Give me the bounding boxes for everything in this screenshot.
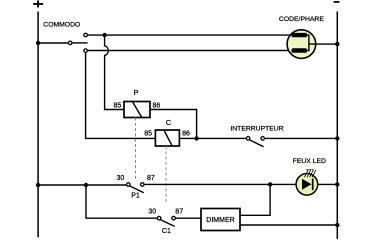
commodo upper contact (phare)	[84, 33, 88, 37]
led FEUX body	[296, 174, 318, 196]
svg-text:85: 85	[144, 131, 152, 138]
commodo lower contact (code)	[84, 49, 88, 53]
wire interrupteur to negative rail	[265, 137, 337, 139]
wire lamp output to negative rail	[309, 43, 337, 45]
contact C1 left terminal	[157, 216, 161, 220]
relay coil P	[124, 102, 150, 118]
wire top node down to relay P pin 85 (with hop over lower wire)	[105, 35, 124, 109]
svg-text:INTERRUPTEUR: INTERRUPTEUR	[230, 126, 283, 133]
interrupteur blade (open)	[250, 140, 264, 147]
svg-text:30: 30	[148, 208, 156, 215]
lamp top filament bar	[292, 33, 308, 37]
left +12V rail wire	[37, 12, 39, 238]
svg-text:86: 86	[153, 103, 161, 110]
svg-text:P1: P1	[131, 192, 140, 199]
node junction interrupteur/negative rail	[335, 136, 339, 140]
wire relay C pin 86 to interrupteur	[179, 137, 246, 139]
lamp filament connector bracket	[307, 35, 309, 50]
contact C1 blade (open)	[161, 220, 175, 227]
svg-text:86: 86	[182, 131, 190, 138]
node junction rail/commodo	[36, 41, 40, 45]
negative supply symbol	[334, 1, 340, 3]
svg-text:DIMMER: DIMMER	[206, 217, 234, 224]
wire C1 pin 87 to dimmer input	[176, 217, 201, 219]
dashed linkage relay P to contact P1	[135, 118, 137, 182]
+12V supply symbol	[33, 0, 43, 7]
wire +rail to contacts P1/C1 feed	[38, 184, 126, 186]
node junction dimmer/led wire	[268, 182, 272, 186]
node junction on top wire	[102, 33, 106, 37]
svg-text:FEUX LED: FEUX LED	[293, 158, 326, 165]
wire dimmer output up to led wire	[240, 184, 270, 215]
contact C1 right terminal	[172, 216, 176, 220]
svg-text:C1: C1	[162, 228, 171, 235]
svg-text:87: 87	[175, 208, 183, 215]
node junction lamp/negative rail	[335, 42, 339, 46]
commodo common contact	[68, 41, 72, 45]
node junction P86/C86	[194, 136, 198, 140]
svg-text:COMMODO: COMMODO	[43, 21, 80, 28]
interrupteur left contact	[246, 137, 250, 141]
wire upper contact to lamp top filament	[88, 34, 292, 36]
wire relay P pin 86 down to node with relay C pin 86	[150, 110, 197, 139]
wire lower contact to lamp bottom filament	[88, 50, 292, 52]
node junction rail/feed	[36, 183, 40, 187]
wire dimmer ground to negative rail	[240, 224, 337, 226]
dashed linkage relay C to contact C1	[165, 146, 167, 204]
svg-text:87: 87	[147, 175, 155, 182]
svg-text:30: 30	[117, 175, 125, 182]
lamp CODE/PHARE body	[287, 30, 316, 59]
svg-text:C: C	[166, 118, 172, 127]
relay coil C	[155, 130, 179, 146]
svg-text:CODE/PHARE: CODE/PHARE	[279, 16, 324, 23]
wire rail to commodo common	[38, 42, 68, 44]
right negative rail wire	[336, 11, 338, 239]
node junction led/negative rail	[335, 182, 339, 186]
wire lower contact down and right to relay C pin 85	[86, 52, 156, 138]
dimmer module box	[201, 209, 240, 231]
svg-text:85: 85	[114, 103, 122, 110]
led light rays	[304, 170, 316, 178]
node junction feed split	[84, 183, 88, 187]
contact P1 right terminal	[141, 183, 145, 187]
interrupteur right contact	[261, 137, 265, 141]
contact P1 left terminal	[127, 183, 131, 187]
led cathode bar	[312, 179, 314, 191]
contact P1 blade (open)	[130, 186, 144, 193]
wire feed down and right to contact C1 pin 30	[86, 185, 157, 218]
lamp bottom filament bar	[292, 48, 308, 52]
commodo switch blade	[73, 42, 88, 44]
node junction dimmer ground/negative rail	[335, 223, 339, 227]
led triangle anode	[302, 179, 312, 190]
svg-text:P: P	[133, 88, 138, 97]
wire P1 pin 87 to feux led and negative rail	[145, 183, 338, 185]
